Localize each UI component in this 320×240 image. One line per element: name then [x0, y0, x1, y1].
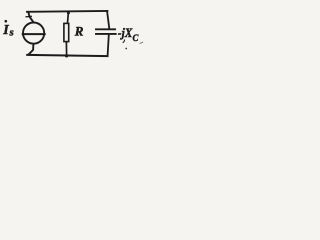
node junction dot top (resistor/top wire) [67, 11, 70, 14]
wire left-bottom connector [29, 44, 34, 54]
current source Is circle [23, 22, 44, 43]
wire capacitor bottom stub [108, 35, 109, 56]
wire capacitor top stub [107, 11, 109, 28]
wire resistor top stub [67, 12, 70, 22]
node junction dot bottom (resistor/bottom wire) [65, 54, 68, 57]
j descender tail [123, 40, 125, 43]
svg-text:R: R [74, 24, 84, 39]
resistor R box [64, 23, 69, 41]
current source bar [23, 33, 45, 35]
capacitor C top plate [96, 28, 115, 30]
wire bottom [27, 55, 107, 56]
wire left-top connector [28, 12, 33, 22]
stray scan mark [140, 42, 144, 44]
capacitor C bottom plate [96, 33, 116, 35]
stray speck [125, 48, 127, 50]
wire top [27, 10, 107, 13]
phasor dot over I [5, 20, 8, 23]
wire resistor bottom stub [65, 42, 67, 55]
tick mark on source wire [26, 15, 31, 17]
